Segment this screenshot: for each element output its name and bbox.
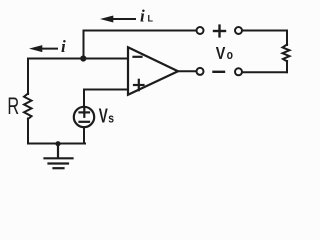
wire stub from Vs bottom down to ground wire (83, 127, 85, 144)
wire top load wire from feedback corner to left output terminal (84, 30, 196, 32)
node A junction dot at inverting input (80, 55, 86, 61)
svg-text:i: i (61, 37, 66, 56)
voltage source Vs circle with polarity marks (74, 107, 94, 127)
wire bottom right to load (243, 71, 288, 73)
label Vo (216, 44, 233, 64)
wire riser from top wire down to inverting node (83, 31, 85, 59)
wire inverting input wire (28, 58, 128, 60)
wire bottom ground wire (28, 143, 85, 145)
svg-text:V: V (216, 44, 226, 64)
wire left vertical below resistor R (27, 119, 29, 144)
wire right vertical above load resistor (286, 31, 288, 46)
terminal upper-right open circle (235, 27, 242, 34)
wire top right to load (243, 30, 288, 32)
wire right vertical below load resistor (286, 61, 288, 72)
label iL (140, 7, 154, 26)
svg-text:L: L (148, 13, 154, 23)
label plus sign of Vo (214, 26, 225, 37)
resistor RL load zigzag (283, 45, 290, 62)
terminal lower-right open circle (235, 68, 242, 75)
terminal lower-left open circle (output) (197, 68, 204, 75)
svg-text:i: i (140, 7, 145, 26)
label minus sign of Vo (214, 71, 225, 73)
wire op-amp output wire (177, 70, 196, 72)
label Vs (99, 105, 115, 127)
node ground junction dot (55, 141, 60, 146)
wire stub from Vs top up to noninverting wire (83, 90, 85, 108)
wire left vertical above resistor R (27, 59, 29, 95)
svg-text:o: o (227, 48, 233, 62)
svg-text:s: s (108, 111, 114, 125)
terminal upper-left open circle (197, 27, 204, 34)
arrow current iL (100, 16, 135, 23)
svg-text:R: R (7, 93, 19, 120)
arrow current i (29, 45, 57, 52)
svg-text:V: V (99, 105, 109, 127)
resistor R zigzag (24, 94, 32, 120)
ground symbol (45, 144, 73, 169)
op-amp U1 triangle (128, 47, 178, 95)
op-amp noninverting input plus mark (134, 80, 144, 90)
wire noninverting input wire (84, 89, 128, 91)
op-amp inverting input minus mark (134, 56, 142, 58)
